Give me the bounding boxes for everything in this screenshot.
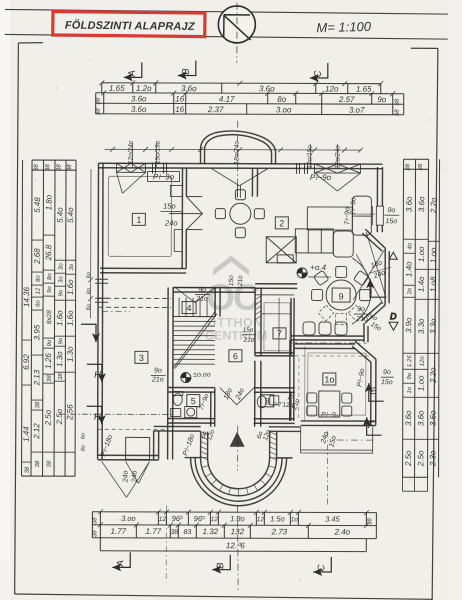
svg-text:12: 12 (159, 516, 167, 523)
svg-text:8o: 8o (86, 288, 92, 294)
svg-text:6: 6 (233, 351, 238, 361)
marker small flag left mid (81, 324, 100, 342)
svg-text:9: 9 (339, 292, 344, 302)
svg-text:3.6o: 3.6o (405, 196, 414, 212)
room3 label (135, 351, 148, 363)
svg-text:24o: 24o (164, 218, 178, 227)
north symbol circle (218, 6, 255, 43)
room7 top wall (255, 283, 297, 285)
entrance bay left wall (184, 432, 292, 506)
exterior wall right lower (376, 225, 378, 232)
bay to room10 wall (363, 323, 365, 342)
svg-text:12o: 12o (325, 84, 339, 93)
room7 left wall hatch (255, 296, 261, 320)
svg-text:3.6o: 3.6o (131, 94, 147, 103)
svg-text:3.oo: 3.oo (121, 514, 136, 523)
title band upper rule (5, 9, 448, 14)
room1 carpet outline (108, 176, 171, 256)
svg-text:38: 38 (418, 163, 424, 170)
svg-text:38: 38 (67, 164, 73, 171)
exterior wall bottom-left (98, 454, 159, 456)
svg-text:38: 38 (170, 529, 178, 536)
room1 label (132, 213, 145, 225)
fireplace (266, 237, 296, 263)
svg-text:2.37: 2.37 (207, 105, 224, 114)
svg-text:38: 38 (395, 109, 401, 116)
bay divider wall with chairs (291, 335, 364, 337)
svg-text:1.4o: 1.4o (404, 261, 413, 277)
svg-text:38: 38 (25, 466, 31, 473)
svg-text:1.2o: 1.2o (136, 84, 152, 93)
window leader lines (133, 142, 338, 168)
svg-text:16: 16 (175, 95, 184, 104)
room10 upper-left inner line (304, 346, 306, 421)
svg-text:4: 4 (187, 303, 192, 313)
bath right wall (210, 392, 212, 427)
room10 left wall (289, 340, 291, 421)
svg-text:2: 2 (279, 218, 284, 228)
dash-dot line right terrace (337, 439, 375, 441)
svg-text:1o: 1o (324, 374, 334, 384)
svg-text:83: 83 (183, 529, 191, 536)
frame left (15, 43, 19, 594)
dashed beam lines room3 (59, 413, 173, 415)
svg-text:3.6o: 3.6o (428, 410, 437, 426)
top dimension strip (96, 83, 404, 115)
svg-text:15o: 15o (228, 275, 235, 286)
svg-text:4.17: 4.17 (219, 95, 235, 104)
dining bay arc (352, 258, 371, 324)
vent ticks top wall (152, 162, 166, 173)
marker D right (389, 311, 398, 330)
right strip bottom caps (402, 490, 427, 492)
svg-text:5.4o: 5.4o (66, 207, 75, 223)
room10 chamfer (355, 341, 376, 359)
svg-text:1.8o: 1.8o (230, 514, 245, 523)
svg-text:38: 38 (405, 163, 411, 170)
porch arch (201, 131, 276, 164)
left strip col5 values (66, 259, 76, 261)
svg-text:9o: 9o (47, 339, 53, 346)
svg-text:D: D (390, 311, 397, 321)
svg-text:1.o8: 1.o8 (429, 276, 438, 292)
room7 right wall (290, 298, 292, 356)
svg-text:8o: 8o (36, 275, 42, 282)
svg-text:5: 5 (191, 396, 196, 406)
svg-text:18o/24o: 18o/24o (234, 141, 241, 165)
svg-text:1.oo: 1.oo (417, 246, 426, 262)
svg-text:15o/15o: 15o/15o (155, 140, 162, 164)
interior wall room1 right (181, 169, 183, 269)
svg-text:H: H (94, 368, 101, 379)
svg-text:12o: 12o (420, 356, 426, 367)
svg-text:8o: 8o (277, 95, 286, 104)
svg-text:2.5o: 2.5o (404, 450, 413, 467)
svg-text:FÖLDSZINTI ALAPRAJZ: FÖLDSZINTI ALAPRAJZ (65, 19, 196, 33)
left strip col4 values (55, 259, 66, 261)
exterior wall bottom of hall (269, 426, 301, 428)
svg-text:21o: 21o (243, 337, 255, 344)
svg-text:1.5o: 1.5o (270, 514, 285, 523)
room8 label (261, 395, 274, 407)
svg-text:1o: 1o (407, 386, 413, 393)
entrance bay right wall (270, 432, 277, 458)
svg-text:P⊢9ₒ: P⊢9ₒ (321, 412, 339, 419)
svg-text:B: B (215, 562, 226, 569)
right strip col1 values (403, 238, 415, 240)
svg-text:38: 38 (56, 164, 62, 171)
marker triangle right (389, 252, 397, 259)
svg-text:3.6o: 3.6o (417, 196, 426, 212)
svg-text:9o: 9o (198, 287, 206, 294)
terrace below room10 (301, 427, 373, 453)
svg-text:6o: 6o (86, 304, 92, 310)
svg-text:38: 38 (395, 98, 401, 105)
marker H left lower (87, 406, 106, 424)
vertical axis dash-dot (236, 3, 238, 63)
svg-text:P⊢9o: P⊢9o (153, 172, 175, 181)
svg-text:P⊢9o: P⊢9o (310, 173, 332, 182)
svg-text:5.4o: 5.4o (56, 207, 65, 223)
svg-text:15o: 15o (243, 327, 254, 334)
svg-text:6o: 6o (86, 272, 92, 278)
exterior wall right upper (376, 167, 378, 206)
svg-text:1.77: 1.77 (111, 527, 127, 536)
svg-text:7⊢9o: 7⊢9o (350, 197, 357, 215)
elevation symbol hall (181, 373, 191, 383)
marker F right (363, 417, 382, 435)
room10 label (323, 373, 336, 385)
staircase (173, 288, 217, 369)
svg-text:3.45: 3.45 (325, 514, 340, 523)
door leaf vestibule (237, 185, 240, 198)
svg-text:2.4o: 2.4o (334, 528, 351, 537)
room8 fixtures (257, 396, 279, 408)
svg-text:12: 12 (36, 287, 42, 294)
frame bottom (15, 594, 433, 599)
window room1 top (116, 163, 145, 172)
svg-text:1o: 1o (291, 516, 299, 523)
svg-text:2.5o: 2.5o (416, 450, 425, 467)
svg-text:14.36: 14.36 (22, 286, 31, 307)
svg-text:96⁵: 96⁵ (172, 514, 184, 523)
bottom strip border ticks (98, 509, 369, 528)
room7 inner divider (278, 298, 280, 353)
right strip col2 values (415, 238, 428, 240)
elevation line under +0.4 (308, 276, 331, 278)
svg-text:1.oo: 1.oo (429, 247, 438, 263)
bath fixtures (171, 392, 197, 418)
svg-text:C: C (313, 70, 324, 77)
room7 left wall (254, 288, 256, 356)
dining bay right wall (384, 248, 386, 305)
svg-text:M= 1:100: M= 1:100 (316, 19, 372, 35)
svg-text:3.6o: 3.6o (259, 84, 275, 93)
dining bay chamfer bottom (365, 305, 385, 323)
svg-text:1.26: 1.26 (44, 353, 53, 369)
svg-text:38: 38 (96, 108, 102, 115)
niche upper (170, 186, 182, 197)
svg-text:38: 38 (92, 517, 98, 524)
svg-text:96⁵: 96⁵ (194, 514, 206, 523)
svg-text:15o: 15o (163, 201, 176, 210)
svg-text:1.4o: 1.4o (417, 276, 426, 292)
svg-text:1.65: 1.65 (356, 85, 372, 94)
svg-text:3o: 3o (407, 287, 413, 294)
svg-text:9o: 9o (357, 306, 365, 313)
svg-text:2.2o: 2.2o (429, 367, 438, 384)
room10 inner offset outline (308, 353, 366, 415)
frame right (432, 48, 438, 600)
svg-text:1.3o: 1.3o (66, 346, 75, 362)
svg-text:1.8o: 1.8o (44, 194, 53, 210)
window top right (314, 164, 360, 173)
dining bay chamfer top (365, 229, 385, 248)
svg-text:2.57: 2.57 (338, 95, 355, 104)
svg-text:A: A (115, 560, 126, 567)
svg-text:15o: 15o (385, 218, 397, 225)
room7 label (273, 328, 286, 339)
svg-text:38: 38 (34, 164, 40, 171)
svg-text:2.12: 2.12 (32, 423, 41, 440)
svg-text:8o: 8o (47, 273, 53, 280)
svg-text:9o: 9o (154, 367, 162, 374)
svg-text:E: E (370, 386, 377, 397)
exterior wall top (99, 162, 383, 165)
svg-text:5.48: 5.48 (33, 197, 42, 213)
entrance bay semicircle wall (200, 458, 276, 496)
section marker A top (124, 62, 142, 81)
svg-text:9o: 9o (58, 289, 64, 296)
svg-text:132: 132 (231, 527, 245, 536)
svg-text:2.5o: 2.5o (44, 409, 53, 426)
section marker A bottom (112, 552, 130, 571)
svg-text:B: B (181, 68, 192, 75)
room1 bottom wall (100, 267, 186, 269)
dashed line room10 (295, 355, 371, 357)
svg-text:38: 38 (35, 460, 41, 467)
section marker B bottom (212, 555, 230, 574)
svg-text:12.⁰6: 12.⁰6 (226, 541, 245, 550)
left strip col2 values (32, 239, 43, 241)
svg-text:3: 3 (139, 353, 144, 363)
room10 top wall (295, 343, 355, 345)
left wall vents (95, 279, 108, 302)
section marker C bottom (313, 557, 331, 576)
svg-text:9o: 9o (58, 337, 64, 344)
marker flag mid right (366, 279, 385, 297)
svg-text:38: 38 (92, 530, 98, 537)
svg-text:A: A (127, 70, 138, 77)
svg-text:21o: 21o (195, 296, 208, 303)
svg-text:21o: 21o (151, 376, 164, 383)
right dimension strip (403, 159, 440, 477)
svg-text:9o: 9o (407, 372, 413, 379)
svg-text:6o: 6o (81, 433, 87, 439)
svg-text:15o: 15o (381, 379, 393, 386)
dim chain above top wall (105, 147, 364, 153)
hall-room8 wall lower (254, 361, 256, 427)
svg-text:12o/24o: 12o/24o (335, 145, 342, 169)
svg-text:24o: 24o (123, 470, 130, 483)
watermark roof (205, 256, 268, 343)
entry triangle (230, 432, 245, 447)
dashed beams room1-room3 (98, 297, 171, 299)
svg-text:1.77: 1.77 (146, 527, 162, 536)
svg-text:9o: 9o (36, 300, 42, 307)
svg-text:1.65: 1.65 (109, 84, 125, 93)
svg-text:1.3o: 1.3o (55, 351, 64, 367)
svg-text:12: 12 (211, 516, 219, 523)
svg-text:+o.4: +o.4 (310, 263, 326, 272)
svg-text:8: 8 (265, 396, 270, 406)
red title box (53, 11, 205, 36)
room9 chairs (312, 266, 371, 300)
terrace door living (211, 169, 267, 186)
exterior wall left (97, 163, 100, 459)
svg-text:2.56: 2.56 (66, 404, 75, 421)
bay window V marks (353, 232, 386, 304)
room6 label (229, 350, 242, 362)
label P90 room1 (147, 171, 179, 181)
room8 walls (254, 387, 295, 389)
interior opening bowtie room1-living (169, 197, 202, 230)
room4 label (182, 302, 196, 314)
svg-text:12o/24o: 12o/24o (128, 140, 135, 164)
svg-text:24o: 24o (132, 470, 139, 483)
svg-text:H: H (94, 410, 101, 421)
entrance bay wall ticks (200, 432, 276, 496)
svg-text:2.73: 2.73 (271, 527, 288, 536)
svg-text:21o: 21o (237, 275, 244, 287)
svg-text:1.6o: 1.6o (66, 310, 75, 326)
svg-text:38: 38 (45, 164, 51, 171)
svg-text:P⊤12o: P⊤12o (272, 402, 293, 409)
vent ticks top wall right (296, 163, 307, 174)
svg-text:2.68: 2.68 (33, 248, 42, 265)
svg-text:1.6o: 1.6o (55, 310, 64, 326)
svg-text:6.92: 6.92 (22, 354, 31, 370)
title band lower rule (5, 34, 448, 39)
bath top wall (168, 386, 215, 388)
svg-text:2.3o: 2.3o (428, 450, 437, 467)
svg-text:16: 16 (175, 105, 184, 114)
room7 bottom wall (255, 352, 294, 354)
svg-text:9o: 9o (47, 286, 53, 293)
frame top-right stub (411, 47, 438, 49)
room10 table and chairs (307, 391, 352, 417)
entrance outer step arc (190, 458, 286, 506)
sideboard chairs row (303, 322, 347, 335)
svg-text:1.44: 1.44 (22, 426, 31, 442)
niche lower (174, 230, 182, 252)
living room round table (215, 190, 264, 238)
svg-text:3.6o: 3.6o (404, 410, 413, 426)
svg-text:3o: 3o (69, 263, 75, 270)
svg-text:3o: 3o (58, 263, 64, 270)
svg-text:9o: 9o (387, 207, 395, 214)
svg-text:38: 38 (47, 460, 53, 467)
svg-text:1: 1 (136, 215, 141, 225)
left dimension strip (22, 160, 76, 476)
svg-text:±o.oo: ±o.oo (193, 372, 211, 379)
svg-text:2.2o: 2.2o (429, 197, 438, 214)
right strip col3 values (428, 240, 439, 242)
exterior wall bottom mid (154, 425, 201, 427)
svg-text:3.oo: 3.oo (276, 105, 292, 114)
window bottom-left room (126, 437, 150, 459)
svg-text:3.95: 3.95 (33, 324, 42, 340)
vestibule wall (251, 169, 253, 197)
section marker C top (310, 63, 328, 82)
hall left wall (167, 287, 170, 459)
svg-text:7: 7 (277, 328, 282, 338)
window living east 90-150 (372, 206, 383, 225)
room9 lower chairs dashed (318, 305, 364, 324)
elevation symbol living (297, 268, 307, 278)
top strip border ticks (99, 80, 395, 96)
svg-text:3.6o: 3.6o (181, 84, 197, 93)
hall top wall (173, 287, 255, 289)
stair well wall (214, 288, 216, 317)
dining table room9 (326, 280, 356, 310)
section marker B top (178, 61, 196, 80)
svg-text:C: C (316, 564, 327, 571)
room2 label (275, 217, 288, 229)
room7 inner outline (264, 303, 290, 351)
svg-text:3.3o: 3.3o (417, 318, 426, 334)
marker H left upper (87, 364, 106, 382)
left dim chain line (88, 169, 93, 318)
entry double door (220, 388, 254, 405)
svg-text:2.13: 2.13 (32, 369, 41, 386)
svg-text:38: 38 (58, 373, 64, 380)
svg-text:1.26: 1.26 (407, 355, 413, 367)
svg-text:3.3o: 3.3o (429, 318, 438, 334)
room10 right wall (375, 359, 377, 425)
bath bottom wall (168, 417, 215, 419)
svg-text:1.6o: 1.6o (66, 279, 75, 295)
svg-text:3.9o: 3.9o (404, 317, 413, 333)
svg-text:8x28: 8x28 (46, 310, 53, 325)
left strip col3 values (43, 234, 54, 236)
svg-text:3.6o: 3.6o (131, 105, 147, 114)
svg-text:3.6o: 3.6o (416, 410, 425, 426)
svg-text:38: 38 (35, 401, 41, 408)
sofa corner (295, 196, 371, 257)
svg-text:38: 38 (47, 375, 53, 382)
svg-text:9o: 9o (383, 369, 391, 376)
svg-text:3.o7: 3.o7 (349, 106, 365, 115)
frame top-left stub (18, 42, 43, 45)
room5 label (187, 395, 200, 407)
svg-text:3o: 3o (58, 276, 64, 283)
svg-text:1.32: 1.32 (203, 527, 219, 536)
svg-text:8o: 8o (81, 445, 87, 451)
svg-text:9o: 9o (377, 95, 386, 104)
svg-text:26.8: 26.8 (44, 244, 53, 261)
svg-text:2.5o: 2.5o (55, 408, 64, 425)
room10 bottom wall (301, 420, 376, 422)
svg-text:1.oo: 1.oo (417, 375, 426, 391)
dash-dot vertical right of entry (326, 431, 328, 506)
secondary axis dash-dot bottom (165, 505, 167, 582)
svg-text:12: 12 (257, 516, 265, 523)
bottom dimension strip (92, 512, 376, 552)
svg-text:12o/15o: 12o/15o (307, 145, 314, 169)
marker E right (365, 383, 384, 401)
svg-text:38: 38 (96, 97, 102, 104)
